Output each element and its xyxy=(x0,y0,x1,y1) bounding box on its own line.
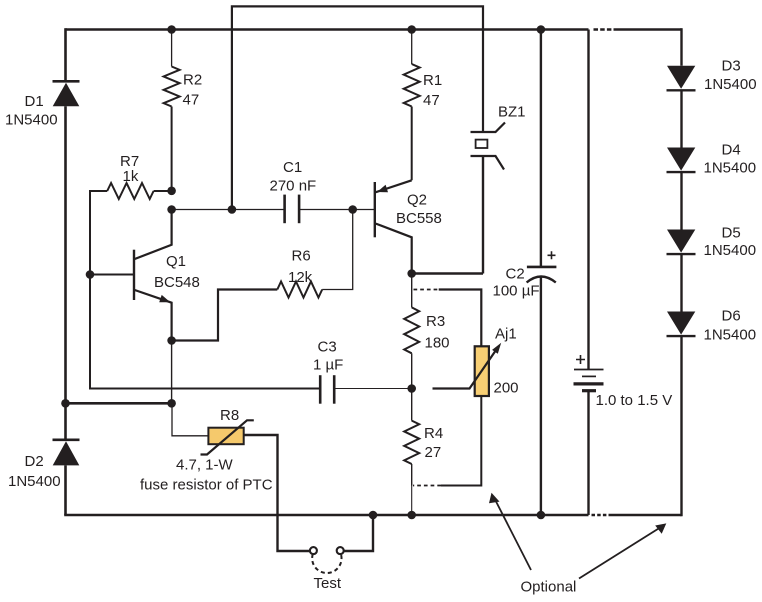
fuse resistor R8 xyxy=(201,420,254,454)
svg-text:100 µF: 100 µF xyxy=(493,283,540,300)
wire dashed R3 top to Aj1 xyxy=(414,289,440,291)
diode D3 xyxy=(667,66,696,91)
resistor R1 xyxy=(404,30,420,181)
label Optional xyxy=(521,579,577,596)
node dot Q2 base xyxy=(348,205,357,214)
diode D6 xyxy=(667,312,696,337)
label D4 xyxy=(704,142,757,177)
wire bottom rail right xyxy=(609,514,682,517)
node dot C1 row left xyxy=(167,205,176,214)
node dot Q2 collector xyxy=(407,269,416,278)
svg-text:D3: D3 xyxy=(722,58,741,75)
wire Q1 emitter node to branch node xyxy=(171,341,173,404)
label D6 xyxy=(704,308,757,344)
wire R8 right to test switch xyxy=(244,435,310,551)
node dot left rail branch xyxy=(61,399,70,408)
svg-text:270 nF: 270 nF xyxy=(270,178,317,195)
svg-text:D5: D5 xyxy=(722,225,741,242)
wire R8 left xyxy=(172,403,208,436)
wire D4 to D5 xyxy=(680,172,682,229)
node dot branch R8 xyxy=(167,399,176,408)
svg-text:C2: C2 xyxy=(506,266,525,283)
label R6 xyxy=(288,248,313,287)
wire top frame to C1 node xyxy=(232,6,483,209)
wire D6 to bottom rail xyxy=(680,336,682,516)
wire Q2 collector to buzzer xyxy=(412,272,483,274)
svg-text:R6: R6 xyxy=(292,248,311,265)
label D2 xyxy=(8,453,61,490)
label R8 value xyxy=(140,457,273,494)
arrow optional right xyxy=(579,523,666,578)
label R2 xyxy=(183,72,203,109)
label R7 xyxy=(120,153,139,185)
label C3 xyxy=(313,339,343,374)
svg-text:180: 180 xyxy=(425,334,450,351)
svg-text:4.7, 1-W: 4.7, 1-W xyxy=(176,457,234,474)
svg-text:C1: C1 xyxy=(283,159,302,176)
svg-text:R1: R1 xyxy=(423,72,442,89)
plus sign battery xyxy=(576,355,585,364)
svg-text:C3: C3 xyxy=(318,339,337,356)
svg-text:1N5400: 1N5400 xyxy=(704,327,757,344)
resistor R7 xyxy=(90,183,172,199)
label Q2 xyxy=(396,192,442,228)
wire branch row left xyxy=(66,402,172,405)
svg-text:47: 47 xyxy=(183,91,200,108)
wire R7 left to C3 row xyxy=(90,190,320,389)
label Q1 xyxy=(154,253,200,291)
wire C1 row xyxy=(172,209,285,211)
wire Aj1 top xyxy=(439,290,482,347)
wire D3 to D4 xyxy=(680,90,682,147)
svg-text:Optional: Optional xyxy=(521,579,577,596)
diode D2 xyxy=(53,440,80,466)
label R8 xyxy=(220,407,239,424)
transistor Q2 xyxy=(375,180,412,273)
capacitor C3 xyxy=(320,375,412,404)
wire R4 bottom to rail thin xyxy=(411,486,413,516)
wire left rail middle xyxy=(64,106,67,440)
svg-text:BC548: BC548 xyxy=(154,274,200,291)
wire dashed Aj1 to R4 bottom xyxy=(413,485,441,487)
svg-text:BZ1: BZ1 xyxy=(498,104,526,121)
label R1 xyxy=(423,72,442,109)
svg-text:D4: D4 xyxy=(722,142,741,159)
wire diode chain top xyxy=(680,28,682,65)
svg-text:1N5400: 1N5400 xyxy=(704,76,757,93)
svg-text:R8: R8 xyxy=(220,407,239,424)
svg-text:fuse resistor of PTC: fuse resistor of PTC xyxy=(140,477,273,494)
capacitor C1 xyxy=(285,195,300,224)
capacitor C2 xyxy=(527,30,557,516)
node dot Q1 base xyxy=(86,270,95,279)
wire C1 to Q2 base xyxy=(299,209,375,211)
svg-text:1k: 1k xyxy=(123,168,139,185)
node dot top C2 xyxy=(537,25,546,34)
wire left rail upper xyxy=(64,28,67,81)
label C2 xyxy=(493,266,540,300)
svg-text:200: 200 xyxy=(494,380,519,397)
svg-text:Test: Test xyxy=(314,575,342,592)
node dot top R2 xyxy=(167,25,176,34)
svg-text:1N5400: 1N5400 xyxy=(5,112,58,129)
label BZ1 xyxy=(498,104,526,121)
label C1 xyxy=(270,159,317,195)
label R3 xyxy=(425,313,450,352)
resistor R3 xyxy=(404,274,419,389)
arrow optional left xyxy=(489,493,531,570)
svg-text:D6: D6 xyxy=(722,308,741,325)
label D5 xyxy=(704,225,757,260)
wire left rail lower xyxy=(64,465,67,515)
svg-text:BC558: BC558 xyxy=(396,210,442,227)
plus sign C2 xyxy=(548,251,556,259)
node dot top R1 xyxy=(407,25,416,34)
label Test xyxy=(314,575,342,592)
svg-text:1N5400: 1N5400 xyxy=(8,473,61,490)
wire R3 R4 junction xyxy=(411,389,413,421)
wire R6 to Q2 base node xyxy=(322,210,353,290)
resistor R4 xyxy=(404,421,419,486)
wire test switch to bottom rail xyxy=(344,515,373,551)
svg-text:1N5400: 1N5400 xyxy=(704,242,757,259)
svg-text:27: 27 xyxy=(425,444,442,461)
wire D5 to D6 xyxy=(680,254,682,311)
svg-text:1.0 to 1.5 V: 1.0 to 1.5 V xyxy=(596,392,673,409)
svg-text:47: 47 xyxy=(423,92,440,109)
svg-text:R4: R4 xyxy=(424,425,443,442)
trimmer Aj1 xyxy=(433,343,502,396)
node dot Q1 emitter xyxy=(167,336,176,345)
resistor R2 xyxy=(164,30,180,191)
node dot bottom R4 xyxy=(407,511,416,520)
label battery voltage xyxy=(596,392,673,409)
node dot bottom C2 xyxy=(537,511,546,520)
node dot bottom test xyxy=(369,511,378,520)
battery B1 xyxy=(574,30,604,516)
svg-text:R3: R3 xyxy=(426,313,445,330)
svg-text:12k: 12k xyxy=(288,269,313,286)
resistor R6 xyxy=(277,282,322,298)
svg-text:1N5400: 1N5400 xyxy=(704,160,757,177)
wire bottom rail xyxy=(64,514,588,517)
svg-text:Q2: Q2 xyxy=(407,192,427,209)
wire top rail optional dashed xyxy=(594,28,614,31)
node dot R7 right xyxy=(167,187,176,196)
diode D5 xyxy=(667,230,696,255)
node dot R3 R4 junction xyxy=(407,384,416,393)
label Aj1 xyxy=(494,326,519,397)
switch contact left xyxy=(310,547,317,554)
svg-text:1 µF: 1 µF xyxy=(313,357,343,374)
wire Q1 emitter to R6 xyxy=(172,290,278,341)
transistor Q1 xyxy=(90,210,172,341)
diode D1 xyxy=(53,81,80,106)
label R4 xyxy=(424,425,443,461)
wire bottom rail optional dashed xyxy=(592,514,608,517)
svg-text:D2: D2 xyxy=(25,453,44,470)
label D3 xyxy=(704,58,757,94)
switch contact right xyxy=(337,547,344,554)
svg-text:R2: R2 xyxy=(183,72,202,89)
label D1 xyxy=(5,93,58,129)
buzzer BZ1 xyxy=(471,123,506,274)
svg-text:Aj1: Aj1 xyxy=(495,326,517,343)
wire Aj1 bottom xyxy=(441,396,481,485)
svg-text:Q1: Q1 xyxy=(166,253,186,270)
node dot C1 row frame xyxy=(228,205,237,214)
switch dashed actuator arc xyxy=(312,554,341,573)
wire top rail xyxy=(66,28,589,31)
wire top rail right xyxy=(614,28,682,31)
svg-text:D1: D1 xyxy=(25,93,44,110)
diode D4 xyxy=(667,148,696,173)
